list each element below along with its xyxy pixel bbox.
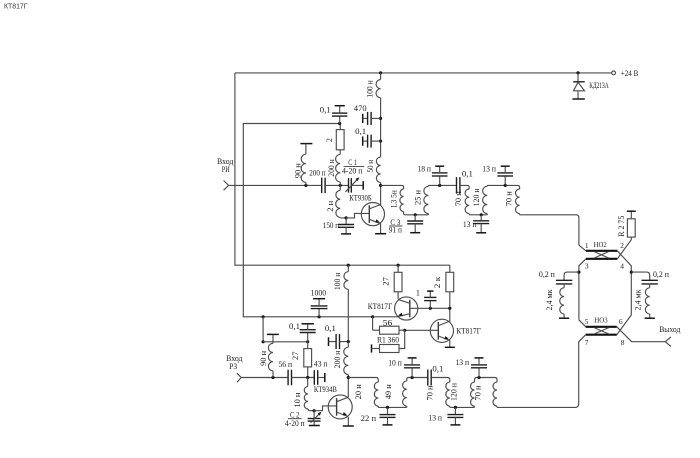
svg-text:4-20 п: 4-20 п xyxy=(342,167,363,176)
resistor 2 xyxy=(339,124,341,130)
ground above 90н stage2 (inverted) xyxy=(267,333,279,335)
node pin 3 xyxy=(577,271,580,274)
svg-text:0,1: 0,1 xyxy=(320,106,331,115)
svg-text:56: 56 xyxy=(383,318,392,327)
inductor 200н stage2 xyxy=(347,342,349,348)
inductor 25н xyxy=(424,186,429,213)
inductor 90н input shunt xyxy=(305,144,307,155)
wire collector КТ930Б xyxy=(380,185,382,204)
node 1000 cap xyxy=(318,315,321,318)
transformer НО3 winding bottom xyxy=(586,334,617,336)
svg-text:70 н: 70 н xyxy=(505,191,514,207)
svg-text:70 н: 70 н xyxy=(473,385,482,401)
inductor 10н xyxy=(307,378,309,387)
wire base Q2 xyxy=(405,329,439,331)
svg-text:1000: 1000 xyxy=(311,289,327,298)
node A xyxy=(339,184,342,187)
wire emitter Q1 branch down xyxy=(372,317,374,330)
svg-text:2: 2 xyxy=(620,241,624,250)
node 13п upper xyxy=(504,184,507,187)
svg-text:0,1: 0,1 xyxy=(289,322,300,331)
node 470 cap xyxy=(379,117,382,120)
node base Q1 - 2к xyxy=(448,307,451,310)
ground emitter КТ934В xyxy=(343,425,354,427)
diode КД213А xyxy=(577,73,579,82)
svg-text:470: 470 xyxy=(354,104,367,113)
svg-text:100 н: 100 н xyxy=(366,80,375,98)
node 13п lower xyxy=(480,213,483,216)
inductor 49н xyxy=(403,381,407,406)
capacitor 18п shunt xyxy=(439,176,441,185)
node 90н stage2 xyxy=(271,376,274,379)
svg-text:КТ817Г: КТ817Г xyxy=(456,326,481,335)
svg-text:1: 1 xyxy=(416,288,420,297)
wire bias sub horizontal xyxy=(263,341,308,343)
wire collector to 20н xyxy=(348,378,378,383)
node base network КТ934В xyxy=(306,376,309,379)
svg-text:1: 1 xyxy=(585,241,589,250)
output terminal xyxy=(665,337,671,346)
svg-text:КТ930Б: КТ930Б xyxy=(349,193,372,202)
svg-text:27: 27 xyxy=(381,277,390,286)
wire bottom 20н-49н xyxy=(378,406,407,407)
capacitor C1 trimmer 4-20п xyxy=(348,178,350,193)
transistor КТ934В xyxy=(328,395,352,419)
wire emitter КТ934В xyxy=(347,417,349,426)
ground left of R1 xyxy=(371,344,373,352)
svg-text:70 н: 70 н xyxy=(425,385,434,401)
inductor 200н bias feed xyxy=(339,182,341,185)
transistor КТ930Б xyxy=(361,203,384,226)
svg-text:2: 2 xyxy=(325,138,334,142)
ground emitter Q2 xyxy=(445,346,455,348)
wire node A segment xyxy=(325,184,348,186)
capacitor 0,2п left xyxy=(556,279,572,281)
wire feedback line 2 xyxy=(243,124,397,317)
capacitor 1000 bypass xyxy=(318,309,320,317)
node 13п lower stage2 xyxy=(454,406,457,409)
svg-text:0,2 п: 0,2 п xyxy=(539,270,556,279)
capacitor 10п shunt xyxy=(411,368,413,378)
terminal +24 В xyxy=(612,71,616,75)
svg-text:3: 3 xyxy=(585,261,589,270)
svg-text:0,1: 0,1 xyxy=(355,127,366,136)
svg-text:18 п: 18 п xyxy=(417,164,431,173)
resistor 56 xyxy=(373,329,380,331)
wire pin 8 output xyxy=(617,327,666,342)
svg-text:L3 5н: L3 5н xyxy=(390,190,399,208)
svg-text:56 п: 56 п xyxy=(279,360,293,369)
transformer НО3 cross xyxy=(594,328,609,334)
resistor 2к xyxy=(449,265,451,272)
resistor R1 360 xyxy=(372,348,380,350)
svg-text:120 н: 120 н xyxy=(449,382,458,401)
input terminal РИ xyxy=(224,181,229,191)
wire 56п to node xyxy=(292,377,315,379)
svg-text:120 н: 120 н xyxy=(472,188,481,207)
node 13п upper stage2 xyxy=(477,376,480,379)
capacitor 43п xyxy=(313,370,315,385)
svg-text:27: 27 xyxy=(291,352,300,361)
wire pin 4 НО2 xyxy=(617,251,631,315)
svg-text:50 н: 50 н xyxy=(366,159,375,172)
transformer НО2 winding bottom xyxy=(586,258,617,260)
svg-text:2 н: 2 н xyxy=(326,200,335,212)
node emitter Q1 junction xyxy=(371,315,374,318)
ground above L 90н (inverted) xyxy=(300,143,312,145)
wire to right balance branch xyxy=(631,272,649,280)
svg-text:0,1: 0,1 xyxy=(325,324,336,333)
capacitor 56п series xyxy=(287,370,289,386)
node bias branch xyxy=(262,315,265,318)
capacitor 0,1 left stage2 xyxy=(307,333,309,342)
svg-text:91 п: 91 п xyxy=(389,226,403,235)
capacitor 0,1 series interstage xyxy=(456,177,458,194)
inductor 70н second xyxy=(516,189,520,214)
inductor 120н stage2 xyxy=(471,382,475,406)
node cap 1 xyxy=(429,307,432,310)
wire collector Q2 xyxy=(449,320,451,323)
capacitor 0,1 bypass xyxy=(362,136,364,145)
svg-text:13 п: 13 п xyxy=(428,413,442,422)
inductor 2н base xyxy=(339,185,341,190)
capacitor 13п shunt upper xyxy=(504,176,506,185)
svg-text:25 н: 25 н xyxy=(413,189,422,205)
ground emitter КТ930Б xyxy=(375,233,386,235)
svg-text:13 п: 13 п xyxy=(463,220,477,229)
wire bias branch down xyxy=(262,317,264,342)
svg-text:РИ: РИ xyxy=(222,165,230,174)
node 100н stage2 xyxy=(347,264,350,267)
node pin 4 xyxy=(630,271,633,274)
inductor 2,4мк left xyxy=(563,284,565,288)
inductor 120н xyxy=(483,186,488,213)
wire input РЗ xyxy=(241,377,288,379)
ground above R2 (inverted) xyxy=(627,210,636,212)
inductor L3 5н xyxy=(400,189,404,212)
inductor 2,4мк right xyxy=(649,284,651,288)
svg-text:70 н: 70 н xyxy=(454,191,463,207)
node 10п xyxy=(411,376,414,379)
svg-text:13 п: 13 п xyxy=(456,358,470,367)
svg-text:10 н: 10 н xyxy=(293,392,302,408)
transformer НО2 cross xyxy=(594,252,608,258)
svg-text:Выход: Выход xyxy=(659,325,680,334)
svg-text:2 к: 2 к xyxy=(433,277,442,289)
svg-text:0,1: 0,1 xyxy=(432,364,443,373)
svg-text:0,2 п: 0,2 п xyxy=(653,270,670,279)
wire bottom L3-25н xyxy=(404,212,429,215)
node base КТ930Б xyxy=(345,216,348,219)
wire +24V rail xyxy=(235,72,612,74)
svg-text:90 н: 90 н xyxy=(294,162,303,178)
wire top 25н-70н xyxy=(428,184,456,187)
svg-text:8: 8 xyxy=(621,338,625,347)
capacitor 200п series xyxy=(321,178,323,194)
wire top 120н-70н xyxy=(487,185,519,189)
svg-text:КТ817Г: КТ817Г xyxy=(4,2,28,11)
svg-text:4-20 п: 4-20 п xyxy=(285,419,305,428)
ground right of 43п xyxy=(324,373,326,382)
svg-text:90 н: 90 н xyxy=(259,350,268,366)
wire top 49н-70н xyxy=(407,378,428,381)
svg-text:200 н: 200 н xyxy=(333,350,342,368)
transistor КТ817Г Q1 xyxy=(395,297,418,320)
capacitor 13п shunt xyxy=(480,215,482,221)
svg-text:КТ817Г: КТ817Г xyxy=(368,302,393,311)
capacitor 470 bypass xyxy=(362,114,364,123)
ground below C2 xyxy=(309,425,320,427)
inductor 70н stage2 xyxy=(446,382,450,406)
svg-text:РЗ: РЗ xyxy=(229,362,237,371)
wire collector Q1 to 27 xyxy=(397,292,399,299)
wire base jog КТ930Б xyxy=(346,213,369,218)
svg-text:200 п: 200 п xyxy=(309,169,326,178)
ground right of C1 xyxy=(362,181,364,190)
svg-text:7: 7 xyxy=(585,338,589,347)
inductor 100н collector feed xyxy=(380,73,382,80)
capacitor 0,2п right xyxy=(642,279,658,281)
node 27 resistor top xyxy=(397,264,400,267)
capacitor 13п shunt upper stage2 xyxy=(478,368,480,378)
wire pin 2 to R2 xyxy=(617,237,631,259)
svg-text:2,4 мк: 2,4 мк xyxy=(545,289,554,310)
wire pin 7 НО3 xyxy=(579,335,586,342)
capacitor 13п stage2 xyxy=(454,407,456,414)
wire bottom 70н-120н xyxy=(469,214,487,215)
svg-text:100 н: 100 н xyxy=(333,272,342,290)
capacitor 0,1 bias1 bypass xyxy=(339,116,341,123)
input terminal РЗ xyxy=(237,373,241,382)
node 22п xyxy=(386,406,389,409)
inductor 90н stage2 xyxy=(272,334,274,343)
transformer НО3 winding top xyxy=(586,326,617,328)
node collector КТ930Б xyxy=(379,184,382,187)
svg-text:4: 4 xyxy=(620,261,624,270)
capacitor 150п xyxy=(345,218,347,225)
svg-text:10 п: 10 п xyxy=(388,358,402,367)
ground below diode xyxy=(572,98,584,100)
capacitor 1 bypass xyxy=(429,301,431,309)
capacitor C2 trimmer 4-20п xyxy=(313,411,315,419)
node diode junction xyxy=(576,71,579,74)
wire emitter Q2 xyxy=(449,341,451,348)
wire input РИ xyxy=(229,184,322,186)
capacitor 0,1 series stage2 xyxy=(427,370,429,386)
svg-text:НО2: НО2 xyxy=(594,240,607,249)
node bias corner xyxy=(262,340,265,343)
node bias1 xyxy=(338,122,341,125)
node base КТ934В xyxy=(313,409,316,412)
svg-text:22 п: 22 п xyxy=(361,414,377,423)
node 90н shunt xyxy=(304,184,307,187)
transistor КТ817Г Q2 xyxy=(430,319,453,342)
node collector КТ934В xyxy=(347,376,350,379)
wire pin 5 НО3 xyxy=(579,320,586,327)
wire pin 3 НО2 xyxy=(579,259,586,320)
wire feedback line 1 xyxy=(235,73,450,265)
wire bottom 70н-120н xyxy=(450,406,475,407)
wire pin 6 НО3 xyxy=(617,315,632,335)
svg-text:2,4 мк: 2,4 мк xyxy=(634,289,643,310)
node base Q2 xyxy=(403,329,406,332)
ground left branch xyxy=(559,317,569,319)
node supply 100н xyxy=(379,71,382,74)
inductor 70н second stage2 xyxy=(493,382,497,406)
resistor R2 75 xyxy=(627,219,635,237)
node C3 xyxy=(414,213,417,216)
svg-text:R1 360: R1 360 xyxy=(377,335,399,344)
svg-text:150 п: 150 п xyxy=(323,221,340,230)
wire base Q1 xyxy=(410,307,450,309)
inductor 20н xyxy=(374,382,378,406)
capacitor C3 91п xyxy=(414,215,416,221)
wire collector to L3 xyxy=(381,185,404,189)
capacitor 22п xyxy=(387,407,389,414)
wire to НО2 pin 1 xyxy=(520,214,579,246)
inductor 50н collector choke xyxy=(376,157,380,183)
wire base jog КТ934В xyxy=(314,406,337,411)
resistor 27 stage2 xyxy=(307,342,309,349)
svg-text:200 н: 200 н xyxy=(327,159,336,177)
wire collector КТ934В xyxy=(347,378,349,398)
inductor 100н stage2 xyxy=(347,265,349,272)
svg-text:6: 6 xyxy=(619,317,623,326)
ground right branch xyxy=(645,317,655,319)
wire top 120н-70н stage2 xyxy=(475,378,498,383)
node 200н stage2 xyxy=(347,340,350,343)
svg-text:КТ934В: КТ934В xyxy=(314,385,337,394)
node 18п xyxy=(438,184,441,187)
resistor 27 bias xyxy=(397,265,399,272)
svg-text:R 2 75: R 2 75 xyxy=(617,216,626,237)
svg-text:+24 В: +24 В xyxy=(621,69,639,78)
svg-text:20 н: 20 н xyxy=(354,384,363,400)
capacitor 0,1 mid stage2 xyxy=(328,337,330,346)
svg-text:КД213А: КД213А xyxy=(589,81,609,90)
node 0,1 cap xyxy=(379,140,382,143)
wire to left balance branch xyxy=(564,272,579,280)
svg-text:43 п: 43 п xyxy=(314,360,328,369)
svg-text:49 н: 49 н xyxy=(384,384,393,400)
inductor 70н xyxy=(465,189,469,214)
transformer НО2 winding top xyxy=(586,250,617,252)
wire emitter КТ930Б xyxy=(380,224,382,234)
wire supply vertical xyxy=(380,111,382,157)
svg-text:0,1: 0,1 xyxy=(462,170,473,179)
svg-text:5: 5 xyxy=(585,317,589,326)
svg-text:НО3: НО3 xyxy=(594,315,607,324)
svg-text:13 п: 13 п xyxy=(482,164,496,173)
node 0,1/27 stage2 xyxy=(306,340,309,343)
